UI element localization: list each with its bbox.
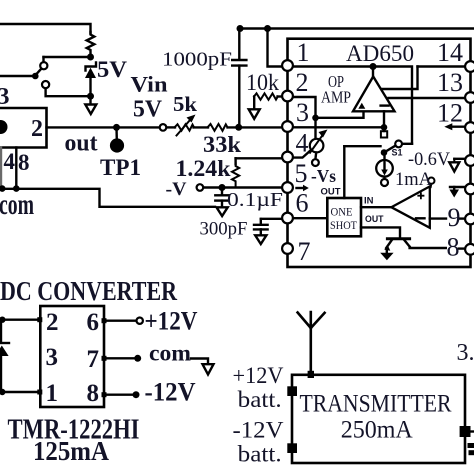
svg-text:12: 12 (437, 99, 463, 128)
svg-text:OUT: OUT (321, 187, 341, 198)
svg-text:14: 14 (437, 38, 463, 67)
svg-text:TP1: TP1 (100, 155, 141, 180)
svg-text:8: 8 (447, 233, 460, 262)
svg-text:+12V: +12V (145, 307, 198, 336)
svg-text:13: 13 (437, 68, 463, 97)
svg-text:3: 3 (0, 84, 10, 110)
svg-text:1.24k: 1.24k (176, 156, 231, 181)
svg-text:1mA: 1mA (395, 169, 432, 190)
svg-text:S1: S1 (392, 148, 403, 158)
svg-text:batt.: batt. (238, 387, 282, 412)
svg-text:DC CONVERTER: DC CONVERTER (0, 276, 177, 306)
svg-text:-12V: -12V (145, 378, 196, 407)
svg-text:out: out (65, 131, 98, 157)
svg-text:+12V: +12V (233, 363, 284, 388)
svg-text:33k: 33k (203, 132, 241, 157)
svg-text:-12V: -12V (233, 418, 284, 443)
svg-text:300pF: 300pF (200, 219, 248, 240)
svg-text:9: 9 (448, 203, 461, 232)
svg-text:6: 6 (87, 309, 100, 336)
svg-text:3: 3 (46, 344, 59, 371)
svg-text:0.1µF: 0.1µF (227, 189, 283, 211)
svg-text:8: 8 (87, 380, 100, 407)
svg-text:5k: 5k (173, 92, 197, 116)
svg-text:-0.6V: -0.6V (408, 149, 450, 170)
svg-text:com: com (149, 341, 191, 366)
svg-text:3.: 3. (457, 340, 474, 366)
svg-text:2: 2 (31, 116, 43, 142)
svg-text:2: 2 (46, 309, 59, 336)
svg-text:6: 6 (296, 189, 309, 218)
svg-text:3: 3 (296, 98, 309, 127)
svg-text:com: com (0, 188, 34, 221)
svg-text:-V: -V (166, 179, 187, 200)
svg-text:7: 7 (87, 346, 100, 373)
svg-text:TRANSMITTER: TRANSMITTER (300, 391, 452, 418)
svg-text:10k: 10k (246, 70, 279, 95)
svg-text:2: 2 (296, 68, 309, 97)
svg-text:250mA: 250mA (341, 417, 413, 444)
svg-text:125mA: 125mA (33, 436, 109, 466)
svg-text:5V: 5V (133, 97, 163, 123)
svg-text:5: 5 (295, 159, 308, 188)
svg-text:Vin: Vin (131, 72, 168, 97)
svg-text:AD650: AD650 (346, 41, 414, 66)
svg-text:1000pF: 1000pF (162, 49, 232, 71)
svg-text:-Vs: -Vs (311, 166, 336, 186)
svg-text:batt.: batt. (238, 442, 282, 467)
svg-text:1: 1 (297, 38, 310, 67)
svg-text:IN: IN (364, 196, 374, 207)
svg-text:OUT: OUT (365, 214, 384, 225)
svg-text:4: 4 (296, 129, 309, 158)
svg-text:SHOT: SHOT (330, 220, 357, 232)
svg-text:5V: 5V (97, 57, 127, 82)
svg-text:7: 7 (298, 237, 311, 266)
svg-text:8: 8 (18, 150, 30, 175)
svg-text:AMP: AMP (321, 88, 351, 107)
svg-text:1: 1 (46, 380, 59, 407)
svg-text:4: 4 (4, 149, 16, 174)
svg-text:ONE: ONE (331, 207, 353, 219)
